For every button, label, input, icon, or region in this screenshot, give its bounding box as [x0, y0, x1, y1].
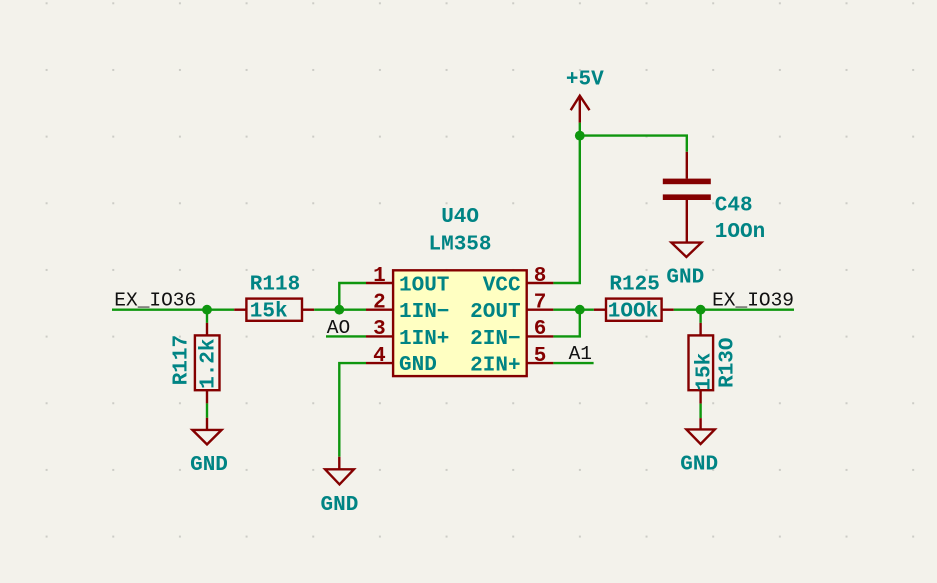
- wire pin6 up to pin7 node: [553, 310, 579, 337]
- pin 7 2OUT: [470, 292, 553, 325]
- junction at R130 top: [696, 305, 706, 315]
- junction pin7 node: [575, 305, 585, 315]
- wire pin7 to R125: [553, 309, 594, 311]
- pin 6 2IN-: [470, 318, 553, 351]
- svg-text:8: 8: [534, 265, 547, 288]
- ground pin4: [325, 457, 354, 485]
- wire R130 to ground: [699, 404, 701, 419]
- ground R130: [686, 418, 714, 444]
- svg-text:1.2k: 1.2k: [197, 338, 220, 388]
- wire A0 to pin 3: [326, 335, 366, 337]
- resistor R117: [195, 323, 220, 404]
- junction feedback node: [334, 305, 344, 315]
- svg-text:3: 3: [373, 318, 386, 341]
- wire junction to R117: [206, 310, 208, 323]
- svg-text:EX_IO39: EX_IO39: [712, 289, 794, 311]
- power +5V: [566, 69, 604, 123]
- svg-text:VCC: VCC: [483, 274, 521, 297]
- svg-text:LM358: LM358: [429, 234, 492, 257]
- svg-text:C48: C48: [715, 195, 753, 218]
- pin 5 2IN+: [470, 345, 553, 378]
- svg-text:GND: GND: [666, 266, 704, 289]
- svg-text:R125: R125: [609, 274, 659, 297]
- wire R118 to pin 2: [314, 309, 366, 311]
- wire pin4 to ground: [339, 363, 366, 457]
- wire feedback pin1 to pin2: [339, 283, 366, 310]
- svg-text:2IN+: 2IN+: [470, 355, 520, 378]
- svg-text:GND: GND: [680, 453, 718, 476]
- resistor R125: [594, 299, 674, 321]
- svg-text:2: 2: [373, 292, 386, 315]
- wire +5V junction to C48: [580, 136, 687, 152]
- op-amp U40 body: [393, 270, 527, 376]
- ground C48: [671, 243, 701, 257]
- svg-text:5: 5: [534, 345, 547, 368]
- resistor R130: [689, 323, 714, 404]
- svg-text:15k: 15k: [693, 353, 716, 391]
- svg-text:GND: GND: [190, 454, 228, 477]
- wire A1 pin 5: [553, 362, 593, 364]
- svg-text:2IN−: 2IN−: [470, 328, 520, 351]
- svg-text:R118: R118: [250, 274, 300, 297]
- svg-text:GND: GND: [399, 354, 437, 377]
- svg-text:1OOk: 1OOk: [608, 300, 658, 323]
- svg-text:R13O: R13O: [717, 337, 740, 387]
- svg-text:2OUT: 2OUT: [470, 301, 520, 324]
- svg-text:R117: R117: [171, 335, 194, 385]
- svg-text:1IN+: 1IN+: [399, 328, 449, 351]
- wire R125 to EX_IO39: [674, 309, 794, 311]
- svg-text:1OUT: 1OUT: [399, 274, 449, 297]
- wire R117 to ground: [206, 403, 208, 417]
- svg-text:EX_IO36: EX_IO36: [114, 289, 196, 311]
- wire junction to R130: [699, 310, 701, 323]
- pin 1 1OUT: [366, 265, 449, 298]
- pin 8 VCC: [483, 265, 554, 298]
- wire EX_IO36 to R118: [112, 309, 234, 311]
- svg-text:GND: GND: [321, 494, 359, 517]
- svg-text:1OOn: 1OOn: [715, 221, 765, 244]
- pin 4 GND: [366, 345, 437, 377]
- junction at R117 top: [202, 305, 212, 315]
- svg-text:+5V: +5V: [566, 69, 604, 92]
- wire pin8 to +5V junction: [553, 123, 579, 283]
- svg-text:7: 7: [534, 292, 547, 315]
- resistor R118: [234, 299, 314, 321]
- svg-text:4: 4: [373, 345, 386, 368]
- svg-text:15k: 15k: [250, 300, 288, 323]
- svg-text:6: 6: [534, 318, 547, 341]
- svg-text:1IN−: 1IN−: [399, 301, 449, 324]
- svg-text:1: 1: [373, 265, 386, 288]
- capacitor C48: [663, 152, 711, 243]
- pin 3 1IN+: [366, 318, 449, 351]
- ground R117: [192, 418, 221, 445]
- svg-text:U4O: U4O: [441, 206, 479, 229]
- junction +5V node: [575, 131, 585, 141]
- pin 2 1IN-: [366, 292, 449, 325]
